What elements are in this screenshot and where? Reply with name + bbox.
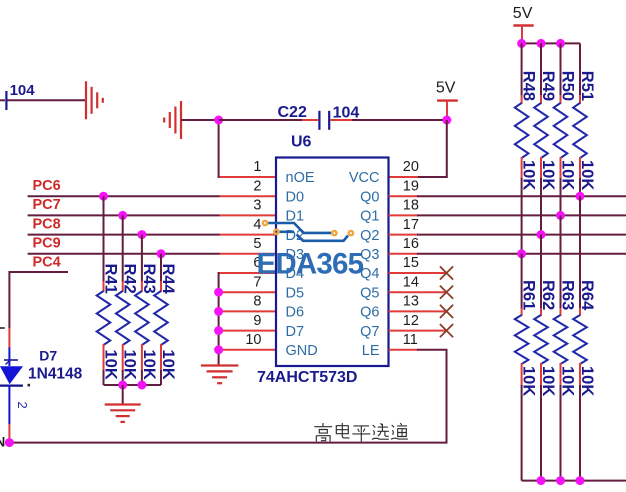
no-connect X pin 13	[440, 305, 453, 318]
wire C22 right plate to 5V junction	[352, 119, 447, 121]
svg-text:R50: R50	[559, 71, 577, 101]
svg-text:Q0: Q0	[360, 189, 379, 205]
watermark EDA365 logo traces	[268, 223, 348, 241]
svg-text:R62: R62	[539, 280, 557, 310]
pin 1 stub (nOE)	[220, 176, 277, 178]
svg-text:19: 19	[403, 178, 419, 194]
pin 7 stub	[220, 291, 277, 293]
svg-text:17: 17	[403, 217, 419, 233]
pin 15 stub	[389, 272, 447, 274]
node: bottom rail R62	[537, 476, 546, 485]
svg-text:10: 10	[245, 332, 261, 348]
svg-text:2: 2	[253, 178, 261, 194]
svg-text:3: 3	[253, 198, 261, 214]
svg-text:R49: R49	[539, 71, 557, 101]
node: R42 tap on PC line	[118, 211, 127, 220]
svg-text:R44: R44	[159, 264, 177, 295]
svg-text:5V: 5V	[436, 80, 456, 97]
wire resistor bottom rail	[104, 384, 162, 386]
node: top rail R49	[537, 39, 546, 48]
wire R61 lower	[521, 385, 523, 481]
resistor R50	[554, 95, 568, 179]
svg-text:2: 2	[15, 402, 30, 409]
ground G1 (rotated, top-left)	[86, 81, 103, 119]
svg-text:D7: D7	[286, 324, 305, 340]
wire R48 to Q row	[521, 178, 523, 254]
wire R51 to Q row	[579, 178, 581, 196]
wire rail to ground G3	[122, 385, 124, 405]
wire R49 to Q row	[540, 178, 542, 235]
svg-text:Q5: Q5	[360, 285, 379, 301]
svg-text:PC7: PC7	[33, 197, 61, 213]
svg-text:74AHCT573D: 74AHCT573D	[257, 369, 357, 386]
label 高电平选通	[314, 423, 408, 442]
svg-text:D6: D6	[286, 305, 305, 321]
svg-text:1N4148: 1N4148	[28, 366, 83, 383]
node: bus pin 8	[214, 307, 223, 316]
wire PC7 to pin 3	[28, 214, 220, 216]
wire R41 top	[103, 196, 105, 282]
small dot artifact	[28, 384, 31, 387]
pin 12 stub	[389, 330, 447, 332]
ground G4 (left bus)	[201, 366, 239, 384]
svg-text:14: 14	[403, 274, 419, 290]
svg-text:U6: U6	[291, 133, 312, 150]
svg-text:D5: D5	[286, 285, 305, 301]
pin 2 stub	[220, 195, 277, 197]
svg-text:R42: R42	[121, 264, 139, 294]
resistor R64	[573, 308, 587, 386]
svg-text:20: 20	[403, 159, 419, 175]
svg-text:D0: D0	[286, 189, 305, 205]
svg-text:PC9: PC9	[33, 236, 61, 252]
wire G2 to junction	[181, 119, 219, 121]
wire R41 bottom	[103, 370, 105, 385]
wire R43 bottom	[141, 370, 143, 385]
resistor R48	[515, 95, 529, 179]
node: R41 tap on PC line	[99, 192, 108, 201]
svg-text:104: 104	[333, 105, 360, 122]
svg-text:EDA365: EDA365	[257, 248, 364, 281]
resistor R41	[97, 281, 111, 371]
node: top rail R50	[556, 39, 565, 48]
node: R43 tap on PC line	[137, 230, 146, 239]
wire R51 upper	[579, 43, 581, 96]
svg-text:PC6: PC6	[33, 178, 61, 194]
pin 14 stub	[389, 291, 447, 293]
node: bus pin 9	[214, 326, 223, 335]
watermark logo pad A	[263, 221, 267, 225]
svg-text:13: 13	[403, 294, 419, 310]
clipped wire at left edge	[0, 327, 5, 329]
power symbol 5V (top right)	[513, 26, 533, 42]
node: 5V / C22 / VCC junction	[442, 116, 451, 125]
wire R61 upper	[521, 254, 523, 309]
svg-text:Q1: Q1	[360, 209, 379, 225]
resistor R51	[573, 95, 587, 179]
svg-text:104: 104	[10, 82, 36, 99]
wire R50 upper	[560, 43, 562, 96]
capacitor C22	[302, 111, 352, 130]
wire junction down to pin 1	[219, 120, 240, 177]
wire R64 lower	[579, 385, 581, 481]
wire PC9 to pin 5	[28, 253, 220, 255]
pin 4 stub	[220, 234, 277, 236]
wire R43 top	[141, 235, 143, 282]
diode D7	[0, 328, 23, 440]
pin 16 stub	[389, 253, 419, 255]
node: rail R42	[118, 381, 127, 390]
wire from capacitor to ground G1	[7, 99, 85, 101]
wire LE down to bottom net	[9, 350, 446, 443]
svg-text:Q7: Q7	[360, 324, 379, 340]
svg-text:16: 16	[403, 236, 419, 252]
wire left bus (pins 6-10)	[219, 273, 240, 366]
wire R49 upper	[540, 43, 542, 96]
node: R50 junction on Q net	[556, 211, 565, 220]
wire 5V junction down to pin 20	[417, 120, 447, 177]
wire R62 lower	[540, 385, 542, 481]
svg-text:C22: C22	[278, 104, 307, 121]
top-left capacitor 104	[0, 91, 6, 110]
svg-text:R61: R61	[520, 280, 538, 310]
svg-text:Q6: Q6	[360, 305, 379, 321]
svg-text:R51: R51	[578, 71, 596, 101]
wire PC4 stub	[9, 272, 68, 328]
wire R44 top	[160, 254, 162, 282]
wire R44 bottom	[160, 370, 162, 385]
node: bus pin 7	[214, 288, 223, 297]
wire PC8 to pin 4	[28, 234, 220, 236]
wire bottom rail	[522, 480, 626, 482]
svg-text:VCC: VCC	[349, 170, 380, 186]
svg-text:9: 9	[253, 313, 261, 329]
svg-text:PC8: PC8	[33, 216, 61, 232]
node: R48 junction on Q net	[517, 249, 526, 258]
svg-text:8: 8	[253, 294, 261, 310]
resistor R44	[154, 281, 168, 371]
svg-text:GND: GND	[286, 343, 318, 359]
pin 20 stub (VCC)	[389, 176, 419, 178]
resistor R49	[534, 95, 548, 179]
svg-text:nOE: nOE	[286, 170, 315, 186]
svg-text:18: 18	[403, 198, 419, 214]
svg-text:LE: LE	[362, 343, 380, 359]
wire R42 top	[122, 215, 124, 282]
wire R63 lower	[560, 385, 562, 481]
svg-text:5V: 5V	[513, 5, 533, 22]
svg-text:PC4: PC4	[33, 255, 61, 271]
ground G3 (below R41-R44)	[105, 405, 141, 422]
wire R42 bottom	[122, 370, 124, 385]
svg-text:4: 4	[253, 217, 261, 233]
svg-text:N: N	[0, 434, 5, 449]
wire R62 upper	[540, 235, 542, 309]
resistor R42	[116, 281, 130, 371]
pin 8 stub	[220, 310, 277, 312]
pin 19 stub	[389, 195, 419, 197]
svg-text:15: 15	[403, 255, 419, 271]
pin 18 stub	[389, 214, 419, 216]
no-connect X pin 15	[440, 266, 453, 279]
wire R50 to Q row	[560, 178, 562, 215]
wire PC6 to pin 2	[28, 195, 220, 197]
node: diode to LE net	[5, 438, 14, 447]
svg-text:1: 1	[253, 159, 261, 175]
svg-text:R48: R48	[520, 71, 538, 101]
pin 11 stub (LE)	[389, 349, 419, 351]
watermark logo pad D	[349, 231, 353, 235]
wire R63 upper	[560, 215, 562, 309]
svg-text:R41: R41	[102, 264, 120, 294]
svg-text:R64: R64	[578, 280, 596, 311]
resistor R43	[135, 281, 149, 371]
node: R49 junction on Q net	[537, 230, 546, 239]
svg-text:D7: D7	[39, 348, 57, 364]
node: R44 tap on PC line	[157, 249, 166, 258]
pin 9 stub	[220, 330, 277, 332]
node: bottom rail R63	[556, 476, 565, 485]
node: R51 junction on Q net	[576, 192, 585, 201]
svg-text:11: 11	[403, 332, 418, 348]
wire R64 upper	[579, 196, 581, 309]
op chip U6 74AHCT573D outline	[276, 158, 389, 367]
ground G2 (rotated, above chip)	[164, 101, 181, 139]
pin 13 stub	[389, 310, 447, 312]
wire Q net row 16	[417, 253, 626, 255]
pin 3 stub	[220, 214, 277, 216]
no-connect X pin 14	[440, 286, 453, 299]
no-connect X pin 12	[440, 324, 453, 337]
wire R48 upper	[521, 43, 523, 96]
wire Q net row 17	[417, 234, 626, 236]
wire Q net row 18	[417, 214, 626, 216]
wire junction to C22 left plate	[219, 119, 303, 121]
node: junction C22/ground net	[214, 116, 223, 125]
pin 5 stub	[220, 253, 277, 255]
node: bus pin 10	[214, 345, 223, 354]
resistor R63	[554, 308, 568, 386]
svg-text:12: 12	[403, 313, 419, 329]
node: bottom rail R64	[576, 476, 585, 485]
power symbol 5V (above VCC)	[437, 101, 458, 118]
resistor R62	[534, 308, 548, 386]
pin 6 stub (D4)	[220, 272, 277, 274]
svg-text:Q2: Q2	[360, 228, 379, 244]
node: top rail R48	[517, 39, 526, 48]
watermark logo pad C	[332, 231, 336, 235]
wire Q net row 19	[417, 195, 626, 197]
svg-text:R63: R63	[559, 280, 577, 310]
svg-text:R43: R43	[140, 264, 158, 294]
watermark logo pad B	[274, 230, 278, 234]
wire top rail	[522, 42, 580, 44]
resistor R61	[515, 308, 529, 386]
pin 10 stub	[220, 349, 277, 351]
node: rail R43	[137, 381, 146, 390]
pin 17 stub	[389, 234, 419, 236]
